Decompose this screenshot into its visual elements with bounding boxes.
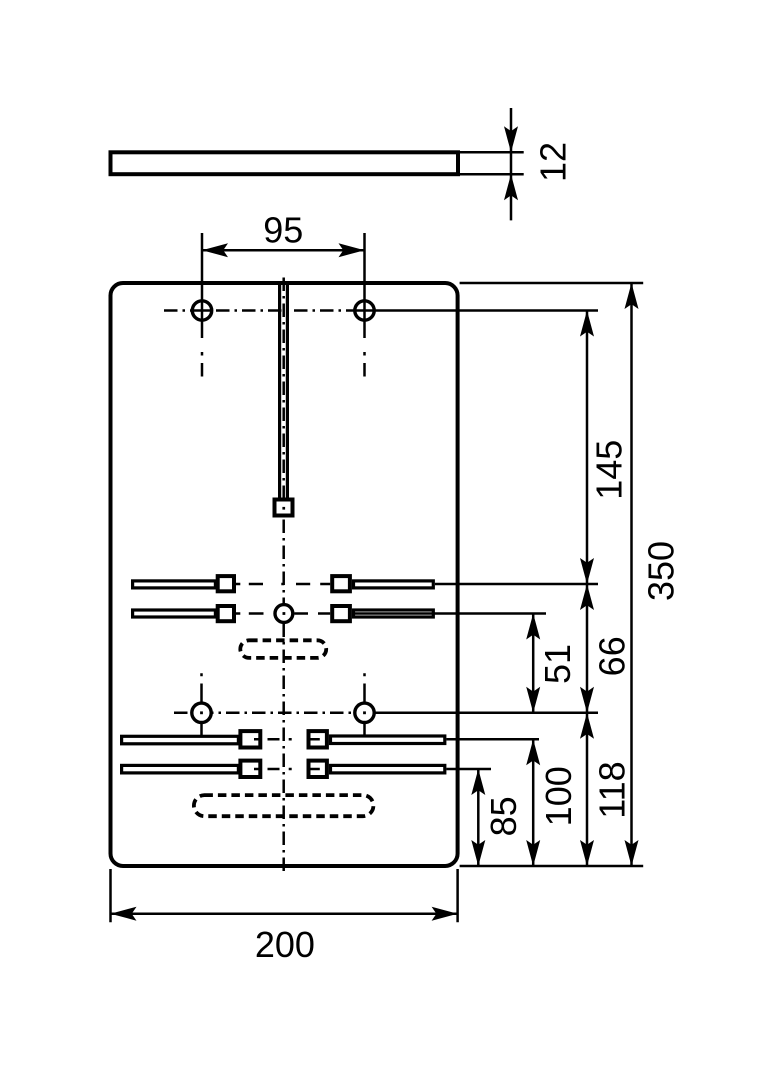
lower hole left vertical centerline: [200, 673, 203, 735]
right extension lines: [352, 283, 643, 866]
dot in lower hole left: [200, 711, 203, 714]
center vertical dash-dot line: [282, 278, 285, 875]
lower row1 centerline segments: [254, 738, 320, 741]
middle row2 centerline segments: [236, 612, 330, 615]
dimension 51 line: [532, 614, 535, 713]
dimension 100 line: [532, 739, 535, 866]
middle slot left row2 bar: [133, 610, 216, 617]
center slot walls: [280, 284, 288, 498]
middle slot left row1 square: [218, 576, 234, 591]
svg-text:66: 66: [591, 636, 632, 676]
svg-text:100: 100: [538, 766, 579, 826]
top hole right vertical centerline: [363, 352, 366, 377]
svg-text:118: 118: [591, 761, 632, 818]
lower slot right row2 bar: [331, 765, 445, 773]
middle slot right row2 square: [332, 606, 350, 621]
lower dashed obround: [194, 795, 374, 816]
dimension 200 extension lines: [111, 869, 458, 922]
top hole left centerline crossing: [193, 309, 211, 312]
dot in middle hole: [283, 612, 286, 615]
center slot bottom square: [275, 500, 293, 516]
top hole left vertical centerline: [201, 352, 204, 377]
dimension 145/66/118 line: [586, 311, 589, 867]
middle slot right row2 bar: [354, 610, 434, 617]
svg-text:85: 85: [483, 796, 524, 836]
middle slot left row2 square: [218, 606, 234, 621]
svg-text:200: 200: [255, 924, 315, 965]
lower holes horizontal centerline: [174, 712, 374, 715]
middle row1 centerline segments: [236, 583, 330, 586]
lower hole right vertical centerline: [363, 673, 366, 735]
lower hole left: [192, 703, 211, 722]
lower slot left row2 bar: [122, 765, 239, 773]
dimension 12 arrows: [504, 126, 518, 200]
right dimension arrows: [471, 283, 638, 866]
svg-text:12: 12: [533, 142, 574, 182]
extension lines thickness: [460, 152, 524, 174]
dimension 95 extension lines: [202, 233, 365, 338]
lower slot right row1 bar: [331, 736, 445, 744]
dimension 95 line: [202, 249, 365, 252]
lower slot left row2 square: [240, 761, 260, 777]
middle slot right row1 bar: [354, 581, 434, 588]
middle dashed obround: [240, 640, 326, 658]
lower hole right: [355, 703, 374, 722]
lower slot left row1 square: [240, 731, 260, 747]
top holes horizontal centerline: [164, 309, 374, 312]
lower slot left row1 bar: [122, 736, 239, 744]
svg-text:51: 51: [537, 644, 578, 684]
side view plate: [111, 152, 459, 174]
dot in lower hole right: [363, 711, 366, 714]
dimension 12 line: [510, 108, 513, 220]
lower slot right row1 square: [309, 731, 327, 747]
dimension 95 arrows: [202, 243, 365, 257]
top hole right: [355, 301, 374, 320]
dot in slot square: [282, 507, 285, 510]
middle slot left row1 bar: [133, 581, 216, 588]
dimension 85 line: [477, 769, 480, 866]
dimension 350 line: [630, 283, 633, 866]
front plate outline: [111, 283, 458, 866]
middle slot right row1 square: [332, 576, 350, 591]
dimension 200 line: [111, 912, 458, 915]
svg-text:145: 145: [589, 440, 630, 500]
svg-text:350: 350: [640, 541, 681, 601]
lower slot right row2 square: [309, 761, 327, 777]
dimension 200 arrows: [111, 907, 458, 921]
middle center hole: [275, 605, 293, 623]
lower row2 centerline segments: [254, 768, 320, 771]
svg-text:95: 95: [263, 210, 303, 251]
top hole left: [192, 301, 211, 320]
top hole right centerline crossing: [356, 309, 374, 312]
